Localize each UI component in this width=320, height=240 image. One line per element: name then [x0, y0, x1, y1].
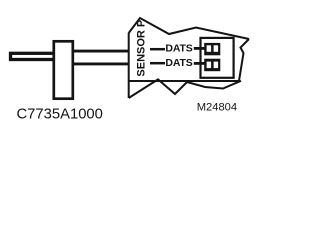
panel bottom edge — [129, 80, 241, 82]
wire dash row 1 — [150, 48, 165, 51]
terminal block outline — [201, 38, 234, 78]
panel torn right edge — [239, 39, 249, 81]
lead row 1 — [194, 47, 205, 50]
panel torn top edge — [129, 18, 249, 39]
sensor C7735A1000 body — [54, 41, 73, 98]
svg-text:DATS: DATS — [165, 43, 192, 55]
wire dash row 2 — [150, 62, 165, 65]
svg-text:DATS: DATS — [165, 57, 192, 69]
sensor C7735A1000 probe tube — [11, 53, 57, 59]
panel left edge — [128, 33, 130, 98]
panel torn bottom zigzag — [129, 79, 241, 98]
svg-text:SENSOR P: SENSOR P — [136, 20, 148, 77]
lead row 2 — [194, 62, 205, 65]
svg-text:M24804: M24804 — [197, 101, 237, 113]
terminal row 1 — [204, 43, 220, 55]
wire — [74, 62, 130, 65]
terminal row 2 — [204, 59, 220, 71]
svg-text:C7735A1000: C7735A1000 — [17, 106, 103, 122]
wire — [74, 50, 130, 53]
